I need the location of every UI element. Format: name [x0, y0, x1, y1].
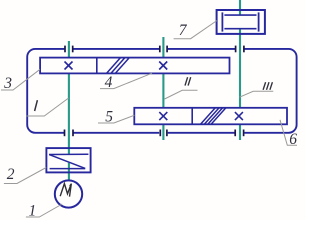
divider in lower block [191, 108, 193, 125]
coupling 7 (output coupling) [217, 10, 265, 34]
label 7 (coupling) [174, 21, 217, 40]
label shaft II [165, 77, 198, 99]
gear X on shaft I [65, 62, 73, 70]
bearing shaft I bottom [65, 130, 74, 137]
hatch band gear 4 [107, 58, 130, 73]
svg-text:7: 7 [179, 22, 188, 39]
shaft III [239, 0, 241, 140]
coupling 2 (motor coupling) [46, 148, 90, 172]
bearing shaft II bottom [160, 130, 167, 137]
label 3 (gear) [1, 69, 40, 92]
gear X on shaft II (lower) [159, 112, 167, 120]
motor M1 [55, 180, 82, 207]
label 5 (gear) [98, 109, 135, 126]
gear block upper (first stage) [40, 58, 229, 74]
label 6 (gear) [280, 120, 297, 148]
divider in upper block [96, 58, 98, 74]
svg-text:3: 3 [3, 75, 12, 92]
housing (gearbox case) [27, 49, 296, 133]
bearing gaps in housing wall [64, 46, 244, 135]
bearing shaft III bottom [235, 130, 243, 137]
bearing shaft III top [236, 46, 244, 53]
label shaft III [240, 82, 274, 97]
shaft I [68, 41, 70, 181]
label 4 (gear) [100, 73, 152, 91]
gear block lower (second stage) [134, 108, 287, 125]
gear X on shaft III [235, 112, 243, 120]
label shaft I [26, 98, 68, 116]
svg-text:2: 2 [7, 166, 15, 183]
gear X on shaft II (upper) [159, 62, 167, 70]
label 2 (coupling) [4, 166, 46, 183]
hatch band on lower block [201, 108, 226, 124]
bearing shaft I top [65, 46, 73, 53]
shaft II [162, 37, 164, 140]
label 1 (motor) [26, 202, 62, 219]
bearing shaft II top [160, 46, 167, 53]
